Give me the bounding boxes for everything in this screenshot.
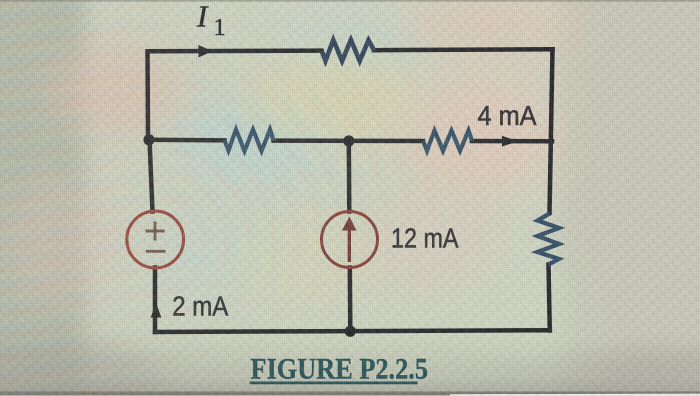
current source I2 (12 mA, circle with up arrow) <box>322 212 378 268</box>
wire: right branch upper <box>550 49 553 213</box>
wire: right branch lower <box>549 265 550 331</box>
svg-text:12 mA: 12 mA <box>391 223 459 254</box>
svg-text:1: 1 <box>214 15 226 41</box>
current arrow I1 on top wire <box>199 45 213 57</box>
node A (left middle junction) <box>143 134 154 145</box>
plus sign of V1 <box>146 222 165 241</box>
resistor R4 (right branch, vertical) <box>538 214 560 265</box>
svg-text:I: I <box>196 0 209 34</box>
wire: middle horizontal left segment <box>149 138 225 143</box>
svg-text:FIGURE P2.2.5: FIGURE P2.2.5 <box>251 353 429 386</box>
wire: bottom <box>155 330 550 332</box>
node C (bottom center junction) <box>345 326 356 337</box>
wire: middle vertical upper (node B to current source) <box>347 141 352 212</box>
wire: middle vertical lower (current source to bottom node) <box>348 268 353 332</box>
wire: top (node top-left to top-right, broken by resistor R1) <box>148 49 553 332</box>
wire: left branch lower (voltage source to bottom corner) <box>153 268 158 333</box>
bottom photo edge bar <box>0 0 1 1</box>
caption underline <box>250 382 418 385</box>
wire: middle horizontal right segment with 4 mA arrow <box>472 139 552 144</box>
wire: left branch upper (junction to voltage source) <box>150 140 153 212</box>
svg-text:2 mA: 2 mA <box>172 291 228 322</box>
node B (center middle junction) <box>343 135 354 146</box>
wire: middle horizontal center segment <box>274 138 424 143</box>
svg-text:4 mA: 4 mA <box>478 100 537 131</box>
top photo edge line <box>0 0 700 2</box>
resistor R1 (top) <box>322 40 375 61</box>
minus sign of V1 <box>146 250 166 253</box>
voltage source V1 (circle with plus minus) <box>127 211 184 268</box>
resistor R2 (middle left) <box>225 130 274 152</box>
wire: top right segment <box>374 47 553 52</box>
arrow of current source <box>348 228 351 262</box>
current arrow 2 mA on left branch (pointing up) <box>151 303 162 318</box>
current arrow 4 mA on middle wire <box>502 136 519 147</box>
resistor R3 (middle right) <box>423 131 472 151</box>
